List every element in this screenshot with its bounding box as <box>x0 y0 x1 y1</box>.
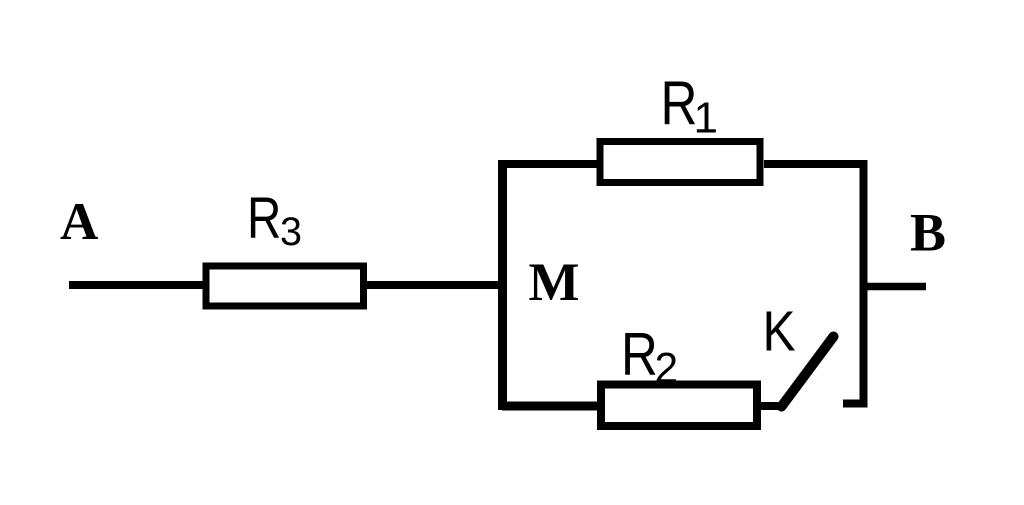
wire B stub <box>867 283 926 291</box>
wire vertical branch at M <box>498 161 507 410</box>
svg-text:M: M <box>529 252 580 312</box>
wire R3 to node M <box>364 281 507 289</box>
label R1 <box>661 70 718 143</box>
wire A to R3 <box>69 281 206 289</box>
resistor R1 <box>600 142 760 183</box>
wire R1 to right corner, down to switch hook <box>764 164 864 404</box>
svg-text:R: R <box>247 186 281 251</box>
switch K blade <box>782 337 834 407</box>
svg-text:2: 2 <box>655 346 679 393</box>
label R3 <box>247 186 302 254</box>
wire M to R2 <box>502 402 601 411</box>
wire R2 to switch <box>761 402 782 410</box>
label R2 <box>621 321 678 392</box>
svg-text:K: K <box>763 300 796 363</box>
svg-text:A: A <box>60 193 98 251</box>
svg-text:R: R <box>621 321 658 388</box>
svg-text:1: 1 <box>694 94 718 143</box>
svg-text:B: B <box>910 203 946 263</box>
resistor R2 <box>601 385 757 427</box>
label K <box>763 300 796 363</box>
wire M to R1 <box>498 160 600 168</box>
resistor R3 <box>206 266 364 306</box>
svg-text:R: R <box>661 70 698 139</box>
svg-text:3: 3 <box>280 210 302 254</box>
